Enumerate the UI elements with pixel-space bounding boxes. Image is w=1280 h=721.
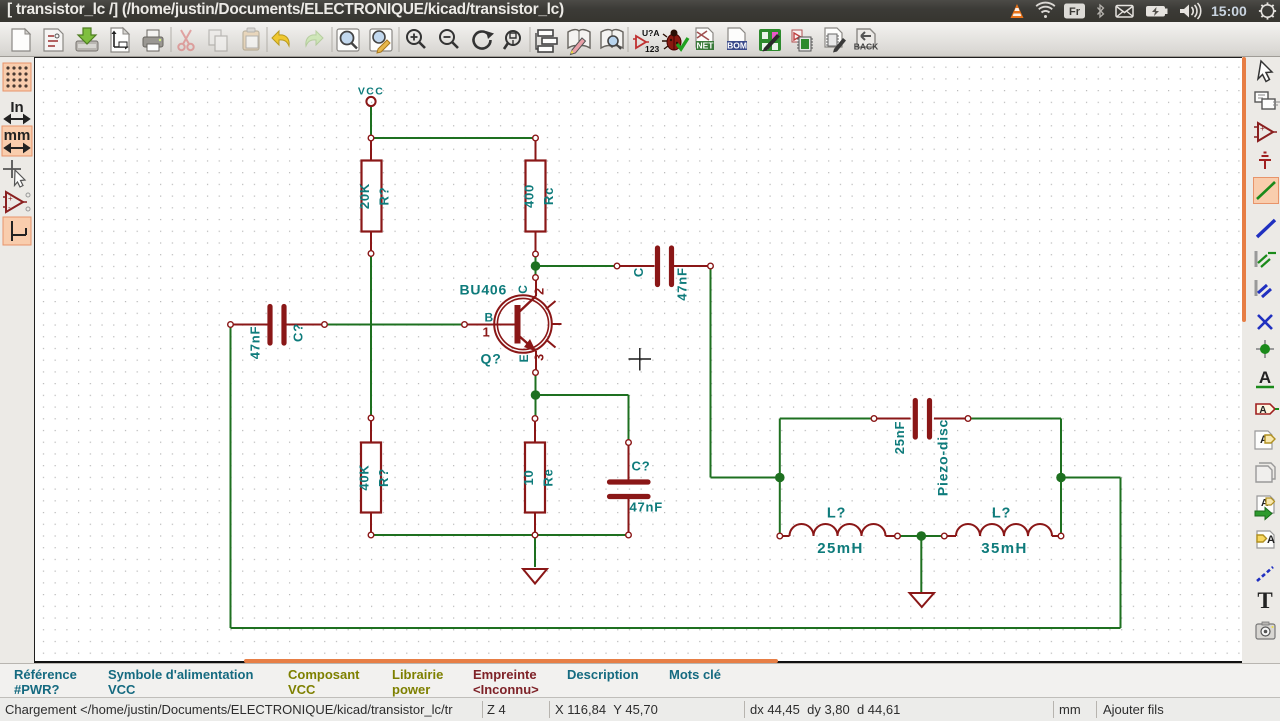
back annotate	[854, 29, 879, 52]
svg-text:In: In	[10, 99, 23, 116]
ERC bug	[662, 30, 688, 51]
place bus	[1257, 220, 1275, 237]
svg-text:-: -	[8, 203, 11, 212]
svg-text:Re: Re	[541, 468, 556, 486]
svg-text:20K: 20K	[357, 183, 372, 209]
new sheet	[12, 29, 30, 51]
svg-text:35mH: 35mH	[981, 540, 1027, 557]
zoom in	[407, 30, 425, 48]
svg-text:C?: C?	[291, 323, 306, 342]
svg-text:BACK: BACK	[854, 42, 879, 52]
svg-text:C: C	[631, 267, 646, 277]
top toolbar	[0, 22, 1280, 57]
wire: emitter node to bypass cap	[536, 394, 629, 396]
resistor R? 40K	[357, 418, 392, 535]
svg-text:+: +	[1260, 124, 1265, 133]
leave sheet book	[568, 30, 590, 55]
print	[143, 30, 163, 51]
svg-text:L?: L?	[827, 506, 846, 522]
wire: ground stem under R4	[534, 535, 536, 567]
info panel	[0, 663, 1280, 698]
place image	[1256, 622, 1275, 639]
hierarchy sheets	[1255, 92, 1280, 109]
svg-text:Fr: Fr	[1069, 6, 1081, 18]
wire: ground stem under tank	[920, 536, 922, 592]
svg-text:10: 10	[521, 469, 536, 485]
vertical scrollbar	[1242, 57, 1246, 663]
wire: R1 bottom to R3 top (divider)	[370, 254, 372, 419]
wire: input cap to base	[325, 324, 465, 326]
junction between inductors	[917, 531, 927, 541]
mouse crosshair	[629, 348, 652, 371]
wire: bypass cap top vertical	[628, 395, 630, 443]
window title bar	[0, 0, 1280, 22]
zoom out	[440, 30, 458, 48]
wire: tank left vertical	[779, 419, 781, 537]
place junction	[1256, 340, 1274, 358]
svg-text:T: T	[1257, 588, 1272, 613]
svg-text:15:00: 15:00	[1211, 3, 1247, 19]
graphic polyline	[1257, 567, 1273, 581]
right toolbar	[1246, 57, 1280, 663]
wire: lower horizontal node R3/R4/C	[371, 534, 629, 536]
import sheet pin	[1255, 496, 1275, 520]
svg-text:U?A: U?A	[642, 28, 659, 38]
resistor R? 20K	[357, 138, 392, 254]
redo	[306, 31, 323, 46]
svg-text:Q?: Q?	[481, 351, 502, 367]
junction emitter node	[531, 390, 541, 400]
svg-text:NET: NET	[697, 41, 715, 51]
wire: tank right vertical	[1060, 419, 1062, 537]
svg-text:A: A	[1259, 405, 1266, 416]
svg-text:R?: R?	[377, 187, 392, 206]
wire: between inductors left	[898, 535, 945, 537]
svg-text:47nF: 47nF	[248, 326, 263, 360]
horizontal scrollbar	[35, 659, 1242, 663]
wire: emitter down to R4	[535, 373, 537, 419]
wire: right vertical to bottom rail	[1120, 478, 1122, 629]
place component	[1254, 123, 1277, 141]
no connect flag	[1258, 315, 1272, 329]
grid visibility (active)	[3, 63, 31, 91]
page settings	[111, 28, 129, 52]
resistor Re 10	[521, 419, 556, 536]
svg-text:VCC: VCC	[358, 86, 384, 98]
wire: tank top right	[968, 418, 1061, 420]
wire: collector node to output cap	[536, 265, 618, 267]
svg-text:mm: mm	[4, 127, 31, 144]
status bar	[0, 697, 1280, 721]
save	[76, 28, 98, 51]
place text	[1257, 588, 1272, 613]
orthogonal wires (active)	[3, 217, 31, 245]
junction tank left	[775, 473, 785, 483]
canvas	[34, 57, 1243, 663]
svg-text:25nF: 25nF	[892, 421, 907, 455]
wire: VCC stem	[370, 107, 372, 139]
svg-text:B: B	[485, 311, 494, 325]
units mm (active)	[2, 126, 32, 156]
zoom fit	[504, 31, 520, 49]
inductor L? 35mH	[944, 506, 1061, 558]
place hierarchical label	[1255, 431, 1275, 449]
select cursor	[1258, 61, 1272, 82]
svg-text:A: A	[1267, 534, 1275, 546]
svg-text:Piezo-disc: Piezo-disc	[935, 419, 951, 496]
svg-text:400: 400	[522, 184, 537, 208]
svg-text:3: 3	[533, 353, 547, 361]
bus to bus entry	[1256, 280, 1271, 297]
cursor shape	[3, 160, 25, 187]
wire: R2 bottom to collector	[535, 254, 537, 278]
svg-text:A: A	[1259, 368, 1271, 387]
svg-text:C?: C?	[632, 459, 651, 474]
capacitor C? 47nF (emitter bypass)	[610, 443, 664, 536]
svg-text:E: E	[517, 354, 531, 363]
svg-text:R?: R?	[376, 468, 391, 487]
copy	[209, 30, 227, 51]
svg-text:L?: L?	[992, 506, 1011, 522]
open schematic	[44, 29, 63, 51]
place sheet	[1256, 463, 1275, 482]
BOM	[727, 28, 747, 51]
library browser book	[601, 30, 623, 49]
svg-text:1: 1	[483, 325, 491, 340]
resistor Rc 400	[522, 138, 557, 254]
svg-text:47nF: 47nF	[630, 500, 664, 515]
wire: tank right junction to right edge	[1061, 477, 1121, 479]
run pcbnew	[759, 29, 781, 52]
capacitor C 47nF (output)	[617, 248, 711, 301]
junction collector node	[531, 261, 541, 271]
svg-text:BOM: BOM	[727, 41, 747, 51]
svg-text:C: C	[516, 284, 530, 293]
svg-text:25mH: 25mH	[817, 540, 863, 557]
cvpcb footprints	[792, 30, 813, 51]
cut	[178, 30, 193, 50]
find	[337, 29, 359, 51]
svg-text:40K: 40K	[357, 464, 372, 490]
svg-text:BU406: BU406	[460, 282, 508, 298]
wire: into tank left junction	[711, 477, 780, 479]
capacitor 25nF Piezo-disc	[874, 401, 968, 497]
place power port	[1259, 153, 1271, 170]
svg-text:47nF: 47nF	[675, 267, 690, 301]
find replace	[370, 29, 392, 53]
place label	[1256, 368, 1274, 387]
paste	[243, 28, 259, 50]
place global label	[1256, 404, 1279, 416]
wire to bus entry	[1256, 251, 1276, 267]
hierarchy navigator	[536, 30, 557, 52]
svg-text:Rc: Rc	[541, 187, 556, 205]
inductor L? 25mH	[780, 506, 898, 558]
ground under tank	[910, 593, 935, 607]
separators	[171, 27, 628, 52]
wire: bottom long ground return	[231, 627, 1121, 629]
undo	[272, 31, 289, 50]
wire: tank top left	[780, 418, 874, 420]
units inches	[5, 99, 29, 123]
junction tank right	[1056, 473, 1066, 483]
place wire (active)	[1254, 178, 1279, 204]
wire: output cap down vertical	[710, 266, 712, 478]
left toolbar	[0, 57, 34, 663]
netlist NET	[696, 28, 714, 51]
capacitor C? 47nF (input)	[231, 307, 325, 360]
pin-end circles	[228, 135, 1064, 539]
svg-text:+: +	[8, 194, 13, 203]
hidden pins opamp	[3, 192, 30, 212]
place sheet pin	[1257, 531, 1275, 548]
svg-text:2: 2	[533, 287, 547, 295]
footprint editor	[825, 28, 846, 53]
transistor Q? BU406	[460, 278, 562, 373]
transistor hidden-pin ticks	[546, 301, 556, 309]
power symbol VCC #PWR?	[358, 86, 384, 107]
svg-text:123: 123	[645, 44, 659, 54]
wire: left vertical from input cap down	[230, 325, 232, 629]
annotate	[633, 28, 659, 54]
ground under R4	[523, 569, 547, 584]
wire: top horizontal VCC rail	[371, 137, 536, 139]
redraw view	[474, 31, 494, 49]
